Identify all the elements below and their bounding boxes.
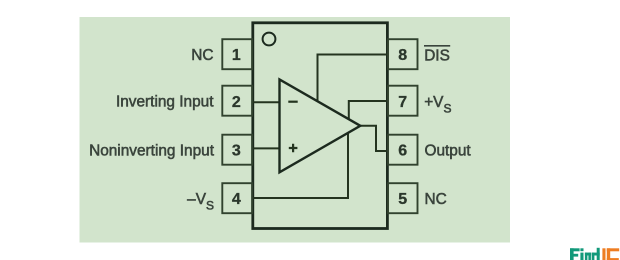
svg-text:NC: NC [191,47,213,64]
svg-text:5: 5 [398,191,407,208]
svg-text:Output: Output [425,142,472,159]
svg-text:2: 2 [232,94,241,111]
svg-text:1: 1 [232,47,241,64]
svg-text:Inverting Input: Inverting Input [116,94,214,111]
svg-text:Noninverting Input: Noninverting Input [89,142,215,159]
svg-text:3: 3 [232,142,241,159]
svg-text:6: 6 [398,142,407,159]
svg-text:4: 4 [232,191,241,208]
svg-text:DIS: DIS [424,48,450,65]
svg-text:8: 8 [398,47,407,64]
svg-text:7: 7 [398,94,407,111]
svg-text:NC: NC [425,191,447,208]
